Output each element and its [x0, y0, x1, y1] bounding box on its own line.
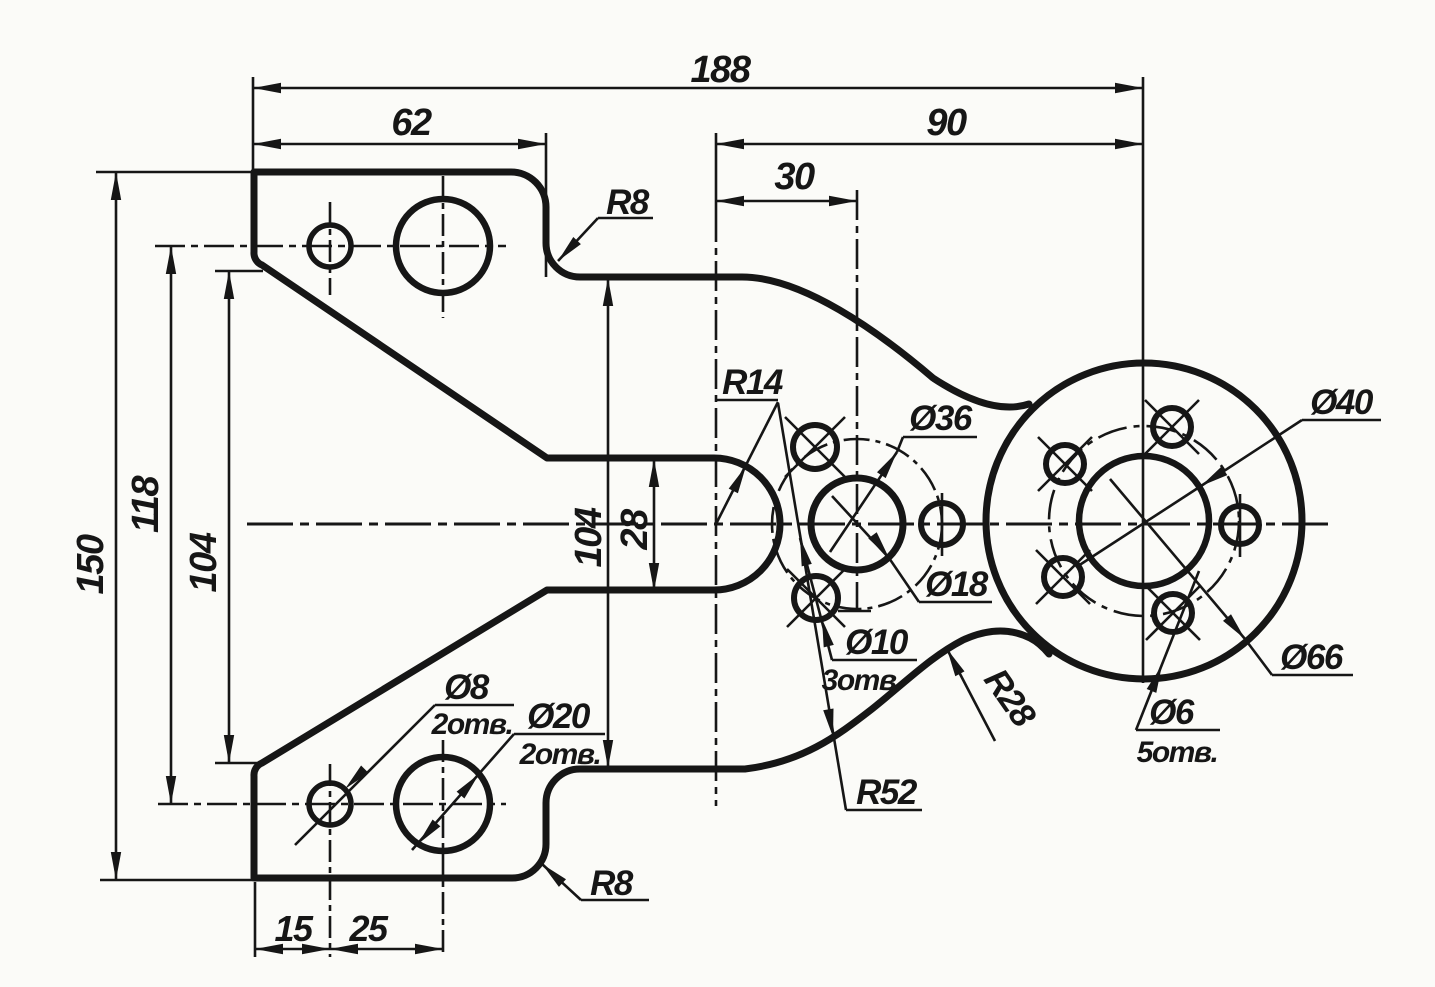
- svg-text:28: 28: [614, 508, 656, 551]
- centre mark of right Ø6 hole: [1239, 494, 1242, 557]
- hole Ø6 #2: [1153, 408, 1191, 446]
- bottom Ø20 hole vertical centreline / 25 extension: [442, 740, 445, 957]
- svg-text:Ø36: Ø36: [909, 399, 973, 438]
- centre cross of lower Ø10 hole: [787, 569, 845, 627]
- leader Ø66: [1272, 674, 1353, 677]
- svg-text:2отв.: 2отв.: [431, 708, 513, 741]
- svg-text:Ø8: Ø8: [444, 668, 490, 707]
- svg-text:Ø6: Ø6: [1149, 693, 1195, 732]
- svg-text:Ø10: Ø10: [845, 623, 909, 662]
- svg-text:188: 188: [691, 49, 752, 91]
- svg-text:25: 25: [348, 908, 389, 949]
- hole Ø6 #1: [1221, 506, 1259, 544]
- leader R28: [947, 649, 995, 741]
- part outline (fork body with V-notch slot and S-curved arms): [254, 172, 1049, 878]
- leader Ø6 with 5 holes note: [1136, 729, 1220, 732]
- hole Ø10 right: [921, 503, 963, 545]
- extension line x=255 below part (15): [254, 882, 257, 957]
- svg-text:R8: R8: [606, 183, 650, 222]
- leader Ø36: [903, 436, 977, 439]
- dimension 104 left: [228, 271, 231, 763]
- middle hole Ø18: [811, 478, 903, 570]
- svg-text:R52: R52: [856, 773, 918, 812]
- dimension 30: [716, 200, 857, 203]
- centre mark of right Ø10 hole: [941, 493, 944, 556]
- svg-text:R8: R8: [590, 864, 634, 903]
- dimension 150: [115, 172, 118, 880]
- extension line x=546 (62): [545, 133, 548, 277]
- right boss vertical centreline x=1143 (188/90 extension): [1142, 77, 1145, 683]
- dimension 188: [253, 87, 1143, 90]
- svg-text:3отв.: 3отв.: [822, 664, 903, 697]
- right boss bolt circle Ø40 (dash-dot): [1049, 426, 1239, 616]
- leader R8 top: [598, 217, 653, 220]
- leader Ø10 with 3 holes note: [832, 659, 917, 662]
- dimension 118: [170, 246, 173, 804]
- middle boss vertical centreline x=857 (30 extension): [856, 190, 859, 611]
- bottom holes centreline: [158, 803, 506, 806]
- leader Ø40: [1302, 419, 1381, 422]
- leader R14: [716, 399, 778, 402]
- leader Ø20 with 2 holes note: [514, 733, 605, 736]
- middle bolt circle Ø36 (dash-dot): [772, 439, 942, 609]
- svg-text:Ø20: Ø20: [527, 697, 591, 736]
- hole Ø20 top: [396, 199, 490, 293]
- right boss outer circle Ø66: [986, 363, 1302, 679]
- centre cross of upper Ø10 hole: [785, 417, 845, 477]
- hole Ø6 #3: [1046, 445, 1084, 483]
- top Ø20 hole vertical centreline: [442, 176, 445, 318]
- extension line top-left (150): [96, 171, 253, 174]
- svg-text:30: 30: [774, 156, 815, 198]
- centre cross of Ø6 hole: [1036, 550, 1090, 604]
- svg-text:Ø18: Ø18: [925, 565, 989, 604]
- svg-text:90: 90: [926, 102, 967, 144]
- centre cross of Ø6 hole: [1146, 586, 1200, 640]
- hole Ø6 #4: [1044, 558, 1082, 596]
- svg-text:Ø40: Ø40: [1310, 383, 1374, 422]
- svg-text:118: 118: [125, 475, 167, 533]
- top Ø8 hole vertical centreline: [329, 202, 332, 295]
- svg-text:104: 104: [568, 507, 610, 567]
- svg-text:15: 15: [274, 908, 314, 949]
- leader Ø8 with 2 holes note: [435, 704, 514, 707]
- hole Ø8 bottom: [309, 783, 351, 825]
- svg-text:62: 62: [391, 102, 432, 144]
- svg-text:150: 150: [70, 534, 112, 594]
- extension line bottom-left (150): [100, 879, 253, 882]
- hole Ø10 lower: [794, 576, 838, 620]
- dimension 15: [255, 948, 330, 951]
- dimension 90: [716, 143, 1143, 146]
- dimension 25: [330, 948, 443, 951]
- centre cross of Ø6 hole: [1145, 400, 1199, 454]
- main horizontal centreline: [247, 523, 1330, 526]
- hole Ø8 top: [309, 225, 351, 267]
- bottom Ø8 hole vertical centreline / 15-25 extension: [329, 764, 332, 957]
- hole Ø10 upper: [793, 425, 837, 469]
- slot centre vertical line x=716 (R14 centre, 30/90 extension): [715, 133, 718, 212]
- extension line lower corner (104 left): [215, 762, 263, 765]
- hole Ø20 bottom: [396, 757, 490, 851]
- dimension 104 right: [607, 278, 610, 768]
- svg-text:5отв.: 5отв.: [1137, 736, 1218, 769]
- extension line x=253 above part (188/62): [252, 77, 255, 172]
- right boss centre hole Ø40: [1079, 456, 1209, 586]
- centre cross of Ø6 hole: [1038, 437, 1092, 491]
- top holes centreline: [155, 245, 506, 248]
- dimension 28: [653, 459, 656, 591]
- leader R8 bottom: [581, 899, 649, 902]
- svg-text:Ø66: Ø66: [1280, 638, 1344, 677]
- hole Ø6 #5: [1154, 594, 1192, 632]
- svg-text:2отв.: 2отв.: [519, 738, 601, 771]
- leader R52: [846, 809, 922, 812]
- dimension 62: [253, 143, 546, 146]
- leader Ø18: [919, 601, 992, 604]
- svg-text:104: 104: [183, 532, 225, 592]
- svg-text:R14: R14: [722, 363, 783, 402]
- extension line upper corner (104 left): [215, 270, 263, 273]
